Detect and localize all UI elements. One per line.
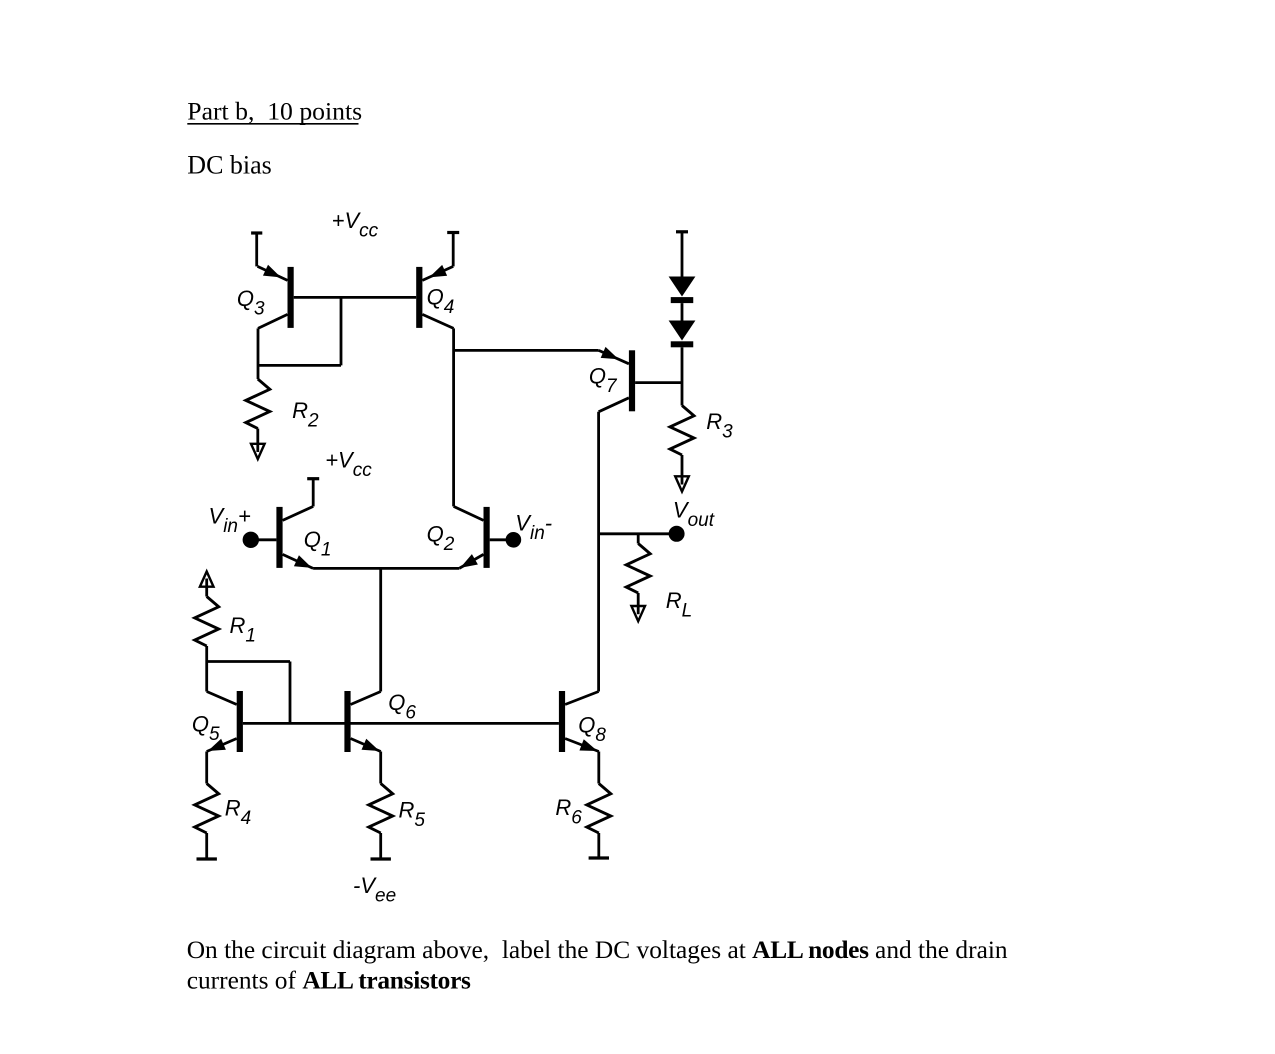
label RL: [666, 588, 692, 622]
svg-text:Part b, 10 points: Part b, 10 points: [187, 96, 362, 125]
power terminal +Vcc at Q1 collector: [307, 479, 319, 507]
power label +Vcc (middle): [325, 448, 372, 482]
transistor Q5 (NPN, diode-connected): [207, 691, 243, 752]
label Q4: [427, 285, 455, 319]
power label -Vee: [353, 873, 396, 907]
label R2: [292, 398, 319, 432]
node Vin+ terminal: [243, 532, 277, 548]
label Q3: [237, 286, 265, 320]
transistor Q2 (NPN input): [454, 506, 490, 568]
body text line 2: [187, 967, 471, 995]
power label +Vcc (top): [332, 208, 379, 242]
power terminal +Vcc at Q3 emitter: [251, 233, 262, 266]
diode D1: [669, 277, 696, 304]
wire D2 to R3 (node with Q7 base): [681, 347, 684, 405]
label Vin+: [209, 504, 251, 538]
label Q7: [589, 364, 618, 398]
wire Q3 base to Q4 base: [294, 296, 417, 299]
title "Part b, 10 points": [187, 96, 362, 125]
wire Q7 collector down (to Vout and Q8): [597, 412, 600, 692]
transistor Q4 (PNP): [416, 265, 453, 329]
wire base rail Q5-Q6-Q8: [243, 722, 559, 725]
arrow (current ref) above R1: [200, 572, 214, 588]
wire D1 to D2: [681, 303, 684, 320]
node Vout: [599, 526, 685, 542]
svg-text:currents of ALL transistors: currents of ALL transistors: [187, 967, 471, 995]
power terminal +Vcc at diode chain: [676, 232, 688, 277]
terminal below R6: [589, 856, 609, 859]
transistor Q1 (NPN input): [276, 506, 313, 568]
power terminal +Vcc at Q4 emitter: [447, 233, 459, 267]
resistor R2: [246, 379, 270, 444]
label R5: [399, 797, 426, 831]
label R1: [230, 613, 256, 647]
wire Q4 collector to Q2 collector: [452, 328, 455, 506]
resistor R1: [195, 586, 219, 691]
resistor RL: [626, 534, 650, 607]
resistor R4: [195, 752, 219, 860]
wire base-collector tie of Q3: [258, 297, 341, 365]
label R6: [555, 795, 582, 829]
transistor Q7 (PNP output): [599, 347, 636, 412]
label Q5: [192, 711, 220, 745]
resistor R3: [670, 406, 694, 477]
svg-text:DC bias: DC bias: [187, 151, 271, 180]
subtitle "DC bias": [187, 151, 271, 180]
label Vout: [673, 498, 715, 532]
label Q6: [388, 690, 416, 724]
transistor Q3 (PNP, diode-connected): [258, 265, 294, 329]
terminal below R5: [371, 857, 391, 860]
wire Q7 base to diode chain: [635, 381, 682, 384]
terminal below R4: [197, 857, 217, 860]
wire R1 to base rail jumper: [207, 662, 290, 724]
transistor Q6 (NPN tail source): [344, 691, 380, 752]
arrow to ground below RL: [631, 605, 645, 621]
wire tail to Q6 collector: [379, 568, 382, 691]
label R3: [706, 409, 733, 443]
node Vin- terminal: [490, 532, 522, 548]
transistor Q8 (NPN current source): [559, 691, 599, 752]
arrow to -Vee below R3: [675, 475, 689, 491]
label R4: [225, 796, 251, 830]
label Q8: [578, 713, 606, 747]
resistor R6: [587, 752, 611, 859]
diode D2: [669, 321, 696, 348]
body text line 1: [187, 936, 1008, 964]
label Vin-: [515, 511, 552, 545]
arrow to -Vee below R2: [251, 443, 265, 459]
wire Q4 collector node to Q7 emitter: [454, 349, 599, 352]
svg-text:On the circuit diagram above,: On the circuit diagram above, label the …: [187, 936, 1008, 964]
wire Q1/Q2 emitter rail: [313, 567, 459, 570]
wire Q3 collector to R2: [257, 328, 260, 379]
label Q2: [427, 522, 455, 556]
label Q1: [304, 527, 332, 561]
resistor R5: [369, 752, 393, 860]
